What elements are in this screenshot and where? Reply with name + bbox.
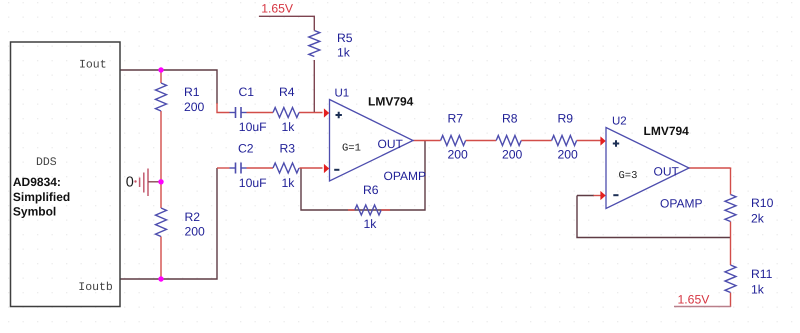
svg-text:OPAMP: OPAMP [660,197,702,211]
svg-text:U2: U2 [612,116,627,128]
svg-text:R6: R6 [363,183,379,197]
svg-text:R1: R1 [184,85,200,99]
svg-text:C2: C2 [238,142,254,156]
svg-text:1.65V: 1.65V [261,1,294,15]
svg-text:1k: 1k [282,120,296,134]
svg-text:1k: 1k [751,282,765,296]
svg-text:LMV794: LMV794 [644,124,690,138]
svg-text:R11: R11 [751,267,773,281]
svg-text:200: 200 [502,148,523,162]
svg-text:1k: 1k [282,176,296,190]
svg-text:1.65V: 1.65V [678,293,711,307]
svg-text:C1: C1 [239,85,255,99]
svg-text:R10: R10 [751,196,774,210]
svg-text:200: 200 [184,100,205,114]
svg-text:2k: 2k [751,211,765,225]
svg-text:OUT: OUT [378,137,404,151]
svg-text:AD9834:: AD9834: [13,175,61,189]
svg-text:R9: R9 [558,112,574,126]
svg-text:OPAMP: OPAMP [384,169,426,183]
svg-text:0: 0 [126,174,134,190]
svg-text:U1: U1 [335,88,350,100]
svg-text:R2: R2 [185,210,201,224]
svg-text:G=3: G=3 [619,170,638,182]
svg-text:R8: R8 [502,112,518,126]
svg-text:10uF: 10uF [239,176,267,190]
svg-text:R5: R5 [337,31,353,45]
svg-text:1k: 1k [364,217,378,231]
svg-text:200: 200 [185,225,206,239]
svg-text:G=1: G=1 [342,143,361,155]
svg-text:OUT: OUT [654,164,680,178]
svg-text:R3: R3 [280,142,296,156]
svg-text:200: 200 [448,148,469,162]
svg-text:200: 200 [558,148,579,162]
svg-text:LMV794: LMV794 [368,94,414,108]
svg-text:DDS: DDS [36,156,57,169]
svg-text:Symbol: Symbol [13,205,56,219]
svg-text:10uF: 10uF [239,120,267,134]
svg-text:Iout: Iout [79,58,107,71]
svg-text:Simplified: Simplified [13,190,70,204]
svg-text:Ioutb: Ioutb [78,281,113,294]
svg-text:R4: R4 [279,85,295,99]
svg-text:1k: 1k [337,46,351,60]
svg-text:R7: R7 [448,112,464,126]
